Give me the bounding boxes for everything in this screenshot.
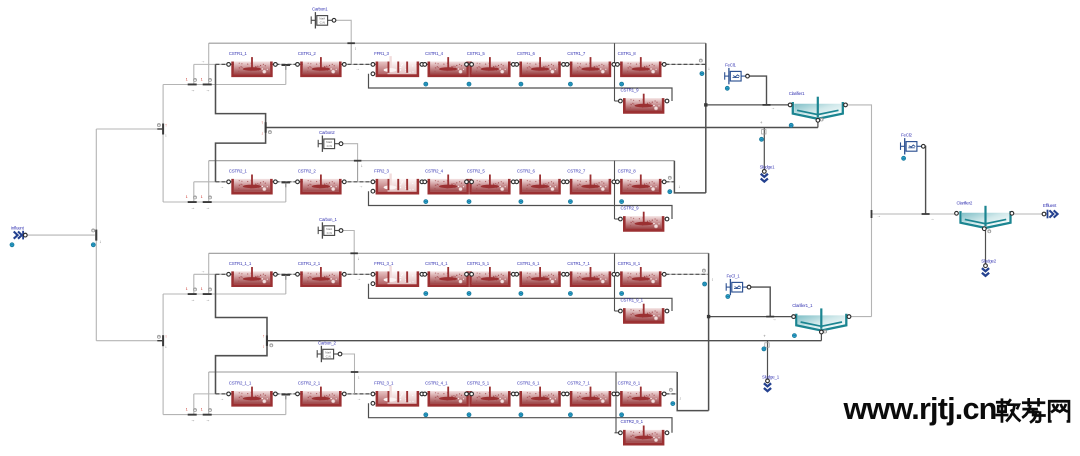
reactor CSTR2_5_1 xyxy=(467,381,511,407)
dosing unit Carbon1 xyxy=(311,7,332,29)
svg-text:CSTR1_9: CSTR1_9 xyxy=(621,87,640,92)
svg-text:CSTR2_9: CSTR2_9 xyxy=(621,205,640,210)
wire manifold train 4 xyxy=(163,414,286,416)
wire carbon dosing lower xyxy=(357,161,359,182)
wire to Clarifier2 xyxy=(872,213,959,215)
reactor CSTR2_9 xyxy=(621,205,665,231)
svg-text:Sludge2: Sludge2 xyxy=(981,259,996,264)
svg-text:Clarifier1_1: Clarifier1_1 xyxy=(792,303,813,308)
wire internal recycle (MLR) xyxy=(369,74,673,101)
dosing unit Carbon_2 xyxy=(317,340,338,362)
wire T up to CSTR1_1_1 inlet xyxy=(193,274,195,294)
wire branch to combiner J2 xyxy=(96,340,162,342)
svg-text:↓: ↓ xyxy=(165,344,167,349)
svg-text:FFR2_3_1: FFR2_3_1 xyxy=(374,381,394,386)
dosing unit FeCl2 xyxy=(901,133,922,155)
reactor CSTR2_8 xyxy=(618,169,662,195)
wire FeCl1 dosing xyxy=(748,76,767,105)
connection ports xyxy=(227,63,231,67)
wire carbon dosing lower xyxy=(353,253,355,274)
svg-text:↓: ↓ xyxy=(99,239,101,244)
junction clarifier1_1 feed tap xyxy=(707,315,710,318)
svg-text:→: → xyxy=(206,88,210,93)
junction manifold riser tap xyxy=(282,274,291,276)
svg-text:1: 1 xyxy=(186,407,188,411)
svg-text:CSTR1_2: CSTR1_2 xyxy=(298,51,317,56)
svg-text:CSTR1_8: CSTR1_8 xyxy=(618,51,637,56)
wire manifold riser train 3 xyxy=(285,274,287,294)
svg-text:→: → xyxy=(355,66,359,71)
reactor CSTR1_8 xyxy=(618,51,662,77)
wire carbon dosing upper xyxy=(340,354,355,372)
wire T up to CSTR2_1_1 inlet xyxy=(193,394,195,415)
svg-text:FeCl1: FeCl1 xyxy=(725,62,736,67)
wire influent splitter riser xyxy=(95,129,97,341)
reactor CSTR1_5 xyxy=(467,51,511,77)
watermark CJK 软荐网 xyxy=(997,400,1020,422)
reactor CSTR1_5_1 xyxy=(467,261,511,287)
svg-text:1: 1 xyxy=(201,195,203,199)
wire process line train 1 xyxy=(216,63,706,65)
wire T up to CSTR1_1 inlet xyxy=(193,64,195,84)
svg-text:↓: ↓ xyxy=(357,256,359,261)
junction splitter train 1 xyxy=(203,84,212,86)
svg-text:CSTR2_9_1: CSTR2_9_1 xyxy=(621,419,644,424)
reactor CSTR1_8_1 xyxy=(618,261,662,287)
svg-text:1: 1 xyxy=(201,77,203,81)
reactor CSTR1_2_1 xyxy=(298,261,342,287)
svg-text:↓: ↓ xyxy=(262,344,264,349)
svg-text:↓: ↓ xyxy=(708,66,710,71)
wire carbon dosing lower xyxy=(354,372,356,394)
svg-text:CSTR1_2_1: CSTR1_2_1 xyxy=(298,261,321,266)
plug-flow reactor FFR2_3_1 xyxy=(374,381,419,407)
svg-text:→: → xyxy=(772,317,776,322)
svg-text:CSTR2_1: CSTR2_1 xyxy=(229,169,248,174)
reactor CSTR2_4_1 xyxy=(425,381,469,407)
wire manifold train 2 xyxy=(163,201,286,203)
junction RAS combine xyxy=(266,335,268,346)
svg-text:→: → xyxy=(771,105,775,110)
svg-text:→: → xyxy=(206,418,210,423)
svg-text:Carbon_2: Carbon_2 xyxy=(318,340,336,345)
svg-text:1: 1 xyxy=(201,407,203,411)
wire nitrate recycle train 2 xyxy=(209,160,675,162)
svg-text:CSTR2_6: CSTR2_6 xyxy=(517,169,536,174)
wire T up to recycle 2 xyxy=(208,161,210,202)
wire carbon dosing lower xyxy=(350,43,352,64)
wire J2 riser xyxy=(162,294,164,415)
wire T up to recycle 4 xyxy=(208,372,210,415)
wire RAS Clarifier1_1 xyxy=(267,340,821,342)
reactor CSTR2_2_1 xyxy=(298,381,342,407)
svg-text:Clarifier2: Clarifier2 xyxy=(957,200,973,205)
wire inlet CSTR2_1 xyxy=(194,181,229,183)
plug-flow reactor FFR2_3 xyxy=(374,169,419,195)
wire Clarifier1_1 underflow xyxy=(820,327,822,341)
wire process line train 2 xyxy=(216,181,675,183)
junction splitter train 4 xyxy=(188,414,197,416)
wire Clarifier1_1 effluent xyxy=(849,316,872,318)
svg-text:Carbon1: Carbon1 xyxy=(312,7,328,12)
junction combiner J1 xyxy=(162,124,164,135)
wire manifold train 3 xyxy=(163,293,286,295)
junction FeCl_1 feed xyxy=(766,316,774,318)
svg-text:Clarifier1: Clarifier1 xyxy=(789,91,805,96)
svg-text:CSTR2_2: CSTR2_2 xyxy=(298,169,317,174)
junction manifold riser tap xyxy=(282,394,291,396)
junction effluent combine xyxy=(871,210,873,218)
wire to CSTR1_9_1 inlet xyxy=(614,253,616,311)
svg-text:1: 1 xyxy=(186,195,188,199)
svg-text:→: → xyxy=(357,396,361,401)
wire internal recycle (MLR) xyxy=(369,191,673,219)
svg-text:→: → xyxy=(191,88,195,93)
svg-text:1: 1 xyxy=(186,287,188,291)
svg-text:FFR1_3_1: FFR1_3_1 xyxy=(374,261,394,266)
reactor CSTR2_1_1 xyxy=(229,381,273,407)
svg-text:→: → xyxy=(201,268,205,273)
junction FeCl1 feed xyxy=(763,104,771,106)
junction combiner J2 xyxy=(162,335,164,346)
svg-text:+: + xyxy=(763,333,766,338)
svg-text:↓: ↓ xyxy=(165,132,167,137)
wire manifold riser train 1 xyxy=(285,64,287,84)
svg-text:CSTR2_7: CSTR2_7 xyxy=(567,169,586,174)
dosing unit Carbon_1 xyxy=(318,217,339,239)
reactor CSTR1_4 xyxy=(425,51,469,77)
svg-text:→: → xyxy=(206,205,210,210)
svg-text:FeCl2: FeCl2 xyxy=(901,133,912,138)
dosing unit FeCl1 xyxy=(725,62,746,84)
svg-text:1: 1 xyxy=(201,287,203,291)
svg-text:Carbon_1: Carbon_1 xyxy=(319,217,337,222)
svg-text:→: → xyxy=(877,213,881,218)
reactor CSTR1_9 xyxy=(621,87,665,113)
junction carbon feed xyxy=(354,160,362,162)
svg-text:Sludge_1: Sludge_1 xyxy=(762,374,780,379)
svg-text:CSTR1_6_1: CSTR1_6_1 xyxy=(517,261,540,266)
junction carbon feed xyxy=(351,371,359,373)
wire Clarifier1 effluent xyxy=(846,105,872,317)
reactor CSTR2_5 xyxy=(467,169,511,195)
reactor CSTR2_4 xyxy=(425,169,469,195)
wire T up to recycle 1 xyxy=(208,43,210,84)
junction splitter train 1 xyxy=(188,84,197,86)
junction clarifier1 feed tap xyxy=(704,103,707,106)
wire nitrate recycle train 1 xyxy=(209,42,706,44)
wire inlet CSTR1_1 xyxy=(194,63,229,65)
wire nitrate recycle train 4 xyxy=(209,371,678,373)
svg-text:CSTR1_9_1: CSTR1_9_1 xyxy=(621,297,644,302)
svg-text:www.rjtj.cn: www.rjtj.cn xyxy=(843,392,997,426)
svg-text:→: → xyxy=(220,184,224,189)
svg-text:→: → xyxy=(206,297,210,302)
svg-text:→: → xyxy=(220,396,224,401)
wire RAS Clarifier1 xyxy=(266,127,818,129)
svg-text:CSTR2_6_1: CSTR2_6_1 xyxy=(517,381,540,386)
svg-text:→: → xyxy=(191,297,195,302)
wire carbon dosing upper xyxy=(341,144,358,161)
svg-text:↓: ↓ xyxy=(261,130,263,135)
junction splitter train 3 xyxy=(203,293,212,295)
wire stub CSTR_9 inlet xyxy=(615,100,621,102)
junction carbon feed xyxy=(350,252,358,254)
svg-text:Influent: Influent xyxy=(11,225,25,230)
wire collector pair 1 xyxy=(705,43,707,193)
svg-text:→: → xyxy=(930,216,934,221)
aeration / control dots xyxy=(10,243,14,247)
junction manifold riser tap xyxy=(282,64,291,66)
svg-text:Carbon2: Carbon2 xyxy=(319,130,335,135)
svg-text:CSTR2_8_1: CSTR2_8_1 xyxy=(618,381,641,386)
reactor CSTR1_2 xyxy=(298,51,342,77)
junction splitter train 2 xyxy=(188,201,197,203)
wire inlet CSTR1_1_1 xyxy=(194,273,229,275)
wire internal recycle (MLR) xyxy=(369,403,673,433)
clarifier Clarifier1 xyxy=(789,91,843,119)
svg-text:CSTR1_4: CSTR1_4 xyxy=(425,51,444,56)
wire inlet CSTR2_1_1 xyxy=(194,393,229,395)
svg-text:→: → xyxy=(357,276,361,281)
wire influent to splitter xyxy=(25,234,95,236)
svg-text:CSTR1_4_1: CSTR1_4_1 xyxy=(425,261,448,266)
svg-text:CSTR1_1: CSTR1_1 xyxy=(229,51,248,56)
svg-text:CSTR1_7_1: CSTR1_7_1 xyxy=(567,261,590,266)
svg-text:CSTR1_8_1: CSTR1_8_1 xyxy=(618,261,641,266)
svg-text:↓: ↓ xyxy=(711,277,713,282)
svg-text:↑: ↑ xyxy=(261,120,263,125)
reactor CSTR2_7_1 xyxy=(567,381,611,407)
wire T up to CSTR2_1 inlet xyxy=(193,182,195,202)
svg-text:CSTR2_1_1: CSTR2_1_1 xyxy=(229,381,252,386)
svg-text:→: → xyxy=(191,418,195,423)
wire FeCl2 dosing xyxy=(923,146,925,214)
wire Clarifier2 to Effluent xyxy=(1013,213,1044,215)
svg-text:CSTR2_5: CSTR2_5 xyxy=(467,169,486,174)
svg-text:↑: ↑ xyxy=(262,333,264,338)
svg-text:1: 1 xyxy=(186,77,188,81)
junction splitter train 4 xyxy=(203,414,212,416)
reactor CSTR1_1 xyxy=(229,51,273,77)
sludge terminal Sludge1 xyxy=(760,165,775,182)
junction splitter train 2 xyxy=(203,201,212,203)
reactor CSTR1_7 xyxy=(567,51,611,77)
reactor CSTR2_6 xyxy=(517,169,561,195)
svg-text:CSTR1_5: CSTR1_5 xyxy=(467,51,486,56)
plug-flow reactor FFR1_3 xyxy=(374,51,419,77)
wire train2 outlet riser xyxy=(674,161,705,193)
plug-flow reactor FFR1_3_1 xyxy=(374,261,419,287)
dosing unit FeCl_1 xyxy=(726,273,747,295)
wire to CSTR2_9_1 inlet xyxy=(615,372,617,433)
wire waste to Sludge_1 xyxy=(767,341,769,380)
reactor CSTR2_8_1 xyxy=(618,381,662,407)
wire branch to combiner J1 xyxy=(96,128,162,130)
svg-text:CSTR2_4: CSTR2_4 xyxy=(425,169,444,174)
wire manifold train 1 xyxy=(163,84,286,86)
svg-text:↓: ↓ xyxy=(679,396,681,401)
wire Clarifier2 underflow to Sludge2 xyxy=(985,230,987,266)
wire carbon dosing upper xyxy=(334,20,351,43)
reactor CSTR2_7 xyxy=(567,169,611,195)
wire waste to Sludge1 xyxy=(763,128,765,170)
wire stub CSTR_9 inlet xyxy=(615,310,621,312)
svg-text:CSTR2_4_1: CSTR2_4_1 xyxy=(425,381,448,386)
reactor CSTR2_2 xyxy=(298,169,342,195)
wire to CSTR2_9 inlet xyxy=(614,161,616,219)
wire internal recycle (MLR) xyxy=(369,284,673,311)
svg-text:FFR1_3: FFR1_3 xyxy=(374,51,389,56)
svg-text:CSTR2_7_1: CSTR2_7_1 xyxy=(567,381,590,386)
svg-text:CSTR1_6: CSTR1_6 xyxy=(517,51,536,56)
reactor CSTR1_7_1 xyxy=(567,261,611,287)
influent terminal xyxy=(11,225,25,239)
junction splitter train 3 xyxy=(188,293,197,295)
svg-text:CSTR1_5_1: CSTR1_5_1 xyxy=(467,261,490,266)
wire feed Clarifier1 xyxy=(706,104,790,106)
svg-text:↑: ↑ xyxy=(165,123,167,128)
effluent terminal xyxy=(1043,203,1058,219)
reactor CSTR1_4_1 xyxy=(425,261,469,287)
reactor CSTR1_6 xyxy=(517,51,561,77)
wire Clarifier1 underflow xyxy=(817,114,819,127)
reactor CSTR1_6_1 xyxy=(517,261,561,287)
svg-text:→: → xyxy=(201,59,205,64)
wire stub CSTR_9 inlet xyxy=(615,432,621,434)
svg-text:FFR2_3: FFR2_3 xyxy=(374,169,389,174)
junction FeCl2 feed xyxy=(922,213,930,215)
junction influent splitter xyxy=(95,230,97,241)
reactor CSTR2_9_1 xyxy=(621,419,665,445)
svg-text:↓: ↓ xyxy=(358,375,360,380)
svg-text:CSTR1_7: CSTR1_7 xyxy=(567,51,586,56)
svg-text:+: + xyxy=(760,120,763,125)
wire collector pair 2 xyxy=(708,253,710,410)
svg-text:↓: ↓ xyxy=(354,46,356,51)
wire process line train 4 xyxy=(216,393,678,395)
svg-text:↑: ↑ xyxy=(165,334,167,339)
svg-text:CSTR2_8: CSTR2_8 xyxy=(618,169,637,174)
reactor CSTR2_6_1 xyxy=(517,381,561,407)
wire process line train 3 xyxy=(216,273,709,275)
junction carbon feed xyxy=(347,42,355,44)
dosing unit Carbon2 xyxy=(318,130,339,152)
svg-text:↓: ↓ xyxy=(678,184,680,189)
svg-text:→: → xyxy=(359,184,363,189)
wire T up to recycle 3 xyxy=(208,253,210,294)
wire stub CSTR_9 inlet xyxy=(615,218,621,220)
wire nitrate recycle train 3 xyxy=(209,252,709,254)
wire train4 outlet riser xyxy=(677,372,708,411)
reactor CSTR1_1_1 xyxy=(229,261,273,287)
wire to CSTR1_9 inlet xyxy=(614,43,616,101)
sludge terminal Sludge2 xyxy=(981,259,996,276)
svg-text:Sludge1: Sludge1 xyxy=(760,165,775,170)
svg-text:CSTR2_5_1: CSTR2_5_1 xyxy=(467,381,490,386)
wire manifold riser train 4 xyxy=(285,394,287,415)
svg-text:CSTR1_1_1: CSTR1_1_1 xyxy=(229,261,252,266)
svg-text:↓: ↓ xyxy=(361,163,363,168)
reactor CSTR1_9_1 xyxy=(621,297,665,323)
reactor CSTR2_1 xyxy=(229,169,273,195)
wire FeCl_1 dosing xyxy=(749,287,770,317)
junction RAS combine xyxy=(265,122,267,133)
svg-text:Effluent: Effluent xyxy=(1043,203,1057,208)
svg-text:FeCl_1: FeCl_1 xyxy=(727,273,741,278)
clarifier Clarifier2 xyxy=(957,200,1011,228)
wire manifold riser train 2 xyxy=(285,182,287,202)
wire carbon dosing upper xyxy=(341,231,354,254)
junction manifold riser tap xyxy=(282,181,291,183)
wire feed Clarifier1_1 xyxy=(709,316,794,318)
wire feed drop train3 to train4 xyxy=(216,274,268,394)
wire J1 riser xyxy=(162,85,164,203)
svg-text:→: → xyxy=(191,205,195,210)
wire feed drop train1 to train2 xyxy=(216,64,266,181)
sludge terminal Sludge_1 xyxy=(762,374,780,391)
clarifier Clarifier1_1 xyxy=(792,303,846,331)
svg-text:CSTR2_2_1: CSTR2_2_1 xyxy=(298,381,321,386)
